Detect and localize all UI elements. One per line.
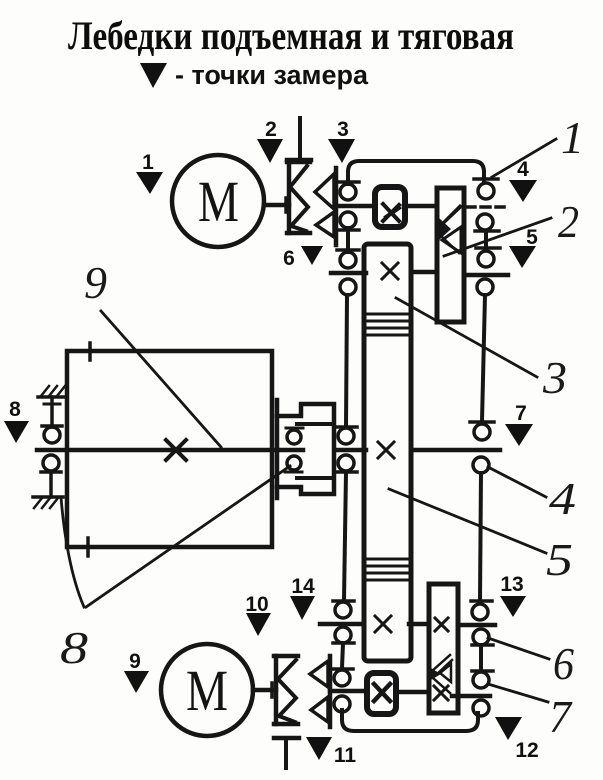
svg-text:6: 6 bbox=[283, 247, 295, 270]
svg-text:2: 2 bbox=[558, 196, 579, 247]
svg-text:3: 3 bbox=[337, 118, 349, 141]
svg-text:М: М bbox=[198, 169, 239, 234]
svg-text:9: 9 bbox=[84, 257, 107, 308]
svg-text:11: 11 bbox=[334, 744, 357, 767]
svg-text:1: 1 bbox=[142, 151, 154, 174]
svg-text:Лебедки подъемная и тяговая: Лебедки подъемная и тяговая bbox=[68, 13, 514, 58]
svg-text:М: М bbox=[186, 658, 228, 723]
svg-text:5: 5 bbox=[546, 534, 573, 585]
svg-text:10: 10 bbox=[245, 593, 268, 616]
svg-text:4: 4 bbox=[517, 158, 529, 181]
svg-text:7: 7 bbox=[549, 691, 573, 742]
svg-text:7: 7 bbox=[515, 402, 527, 425]
svg-text:1: 1 bbox=[561, 112, 584, 163]
svg-text:8: 8 bbox=[9, 398, 21, 421]
svg-text:8: 8 bbox=[60, 622, 88, 673]
svg-text:9: 9 bbox=[129, 650, 141, 673]
svg-text:14: 14 bbox=[291, 575, 315, 598]
svg-text:4: 4 bbox=[549, 473, 576, 524]
svg-text:3: 3 bbox=[542, 352, 567, 403]
svg-text:- точки замера: - точки замера bbox=[175, 60, 369, 90]
svg-text:6: 6 bbox=[553, 638, 574, 689]
svg-text:13: 13 bbox=[500, 573, 523, 596]
svg-text:5: 5 bbox=[526, 226, 538, 249]
svg-text:2: 2 bbox=[265, 118, 277, 141]
svg-text:12: 12 bbox=[515, 739, 538, 762]
